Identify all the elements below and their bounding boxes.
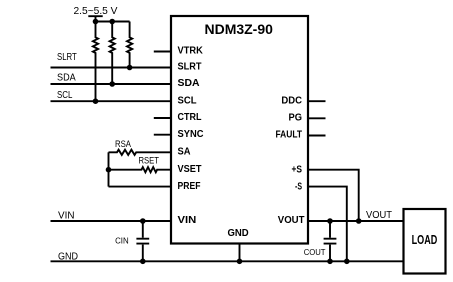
pin SDA — [178, 77, 200, 89]
svg-text:SDA: SDA — [178, 77, 200, 89]
resistor RSET — [109, 167, 172, 172]
node CIN/GND junction — [140, 259, 146, 265]
capacitor COUT — [324, 221, 337, 261]
wire PREF — [109, 186, 172, 188]
label net GND — [58, 250, 78, 262]
wire supply rail — [96, 21, 130, 23]
resistor RSA — [109, 150, 172, 155]
node bus/VSET junction — [106, 167, 112, 173]
svg-text:VOUT: VOUT — [366, 209, 393, 221]
pin -S — [295, 181, 302, 193]
svg-text:SA: SA — [178, 146, 191, 158]
node -S/GND junction — [344, 259, 350, 265]
label RSA — [115, 139, 131, 149]
svg-text:+S: +S — [292, 164, 303, 176]
wire +S to VOUT — [308, 170, 359, 221]
pin VSET — [178, 163, 203, 175]
pin SLRT — [178, 61, 203, 73]
svg-text:RSA: RSA — [115, 139, 131, 149]
wire SYNC pin stub — [154, 134, 171, 136]
node VIN/CIN junction — [140, 218, 146, 224]
op IC U1 NDM3Z-90 — [171, 16, 308, 244]
svg-text:SCL: SCL — [57, 89, 73, 101]
svg-text:DDC: DDC — [281, 94, 302, 106]
pin GND — [228, 227, 250, 239]
capacitor CIN — [136, 221, 149, 261]
svg-text:GND: GND — [228, 227, 250, 239]
svg-text:SYNC: SYNC — [178, 128, 204, 140]
svg-text:VIN: VIN — [178, 214, 197, 226]
label LOAD — [412, 233, 438, 247]
label net VIN — [58, 209, 75, 221]
resistor pull-up R3 (to SLRT) — [127, 22, 132, 68]
node R2/SDA junction — [109, 81, 115, 87]
label net VOUT — [366, 209, 393, 221]
pin +S — [292, 164, 303, 176]
label net SLRT — [57, 51, 77, 63]
svg-text:CTRL: CTRL — [178, 111, 202, 123]
wire PG pin stub — [308, 117, 326, 119]
pin SYNC — [178, 128, 204, 140]
wire -S to GND — [308, 187, 347, 262]
svg-text:VOUT: VOUT — [278, 214, 305, 226]
label COUT — [304, 247, 326, 257]
node VOUT/COUT junction — [327, 218, 333, 224]
svg-text:2.5~5.5 V: 2.5~5.5 V — [74, 5, 118, 17]
svg-text:VSET: VSET — [178, 163, 203, 175]
supply terminal 2.5~5.5 V — [88, 16, 102, 21]
wire FAULT pin stub — [308, 135, 326, 137]
node supply/R1 junction — [93, 19, 99, 25]
wire SA/VSET/PREF common bus — [108, 152, 110, 186]
label 2.5~5.5 V — [74, 5, 118, 17]
pin PREF — [178, 180, 201, 192]
wire GND rail — [51, 260, 404, 262]
node IC-GND/rail junction — [237, 259, 243, 265]
label NDM3Z-90 — [205, 22, 274, 38]
wire VIN — [51, 220, 172, 222]
pin PG — [289, 112, 303, 124]
svg-text:PREF: PREF — [178, 180, 201, 192]
pin VIN — [178, 214, 197, 226]
pin DDC — [281, 94, 302, 106]
wire SLRT — [51, 67, 172, 69]
svg-text:PG: PG — [289, 112, 303, 124]
svg-text:SCL: SCL — [178, 94, 198, 106]
svg-text:FAULT: FAULT — [276, 129, 303, 141]
svg-text:SLRT: SLRT — [57, 51, 77, 63]
svg-text:CIN: CIN — [115, 236, 129, 246]
svg-text:LOAD: LOAD — [412, 233, 438, 247]
pin SA — [178, 146, 191, 158]
wire CTRL pin stub — [154, 117, 171, 119]
svg-text:VIN: VIN — [58, 209, 75, 221]
pin VTRK — [178, 45, 204, 57]
svg-text:SDA: SDA — [57, 72, 76, 84]
resistor pull-up R2 (to SDA) — [110, 22, 115, 85]
svg-text:NDM3Z-90: NDM3Z-90 — [205, 22, 274, 38]
node R1/SCL junction — [93, 98, 99, 104]
node COUT/GND junction — [327, 259, 333, 265]
wire VTRK pin stub — [154, 51, 171, 53]
svg-text:VTRK: VTRK — [178, 45, 204, 57]
wire SCL — [51, 100, 172, 102]
node supply/R2 junction — [109, 19, 115, 25]
node +S/VOUT junction — [356, 218, 362, 224]
pin SCL — [178, 94, 198, 106]
node R3/SLRT junction — [127, 65, 133, 71]
wire VOUT — [308, 220, 404, 222]
pin VOUT — [278, 214, 305, 226]
wire IC GND pin stub — [239, 244, 241, 262]
wire SDA — [51, 83, 172, 85]
label CIN — [115, 236, 129, 246]
svg-text:RSET: RSET — [139, 156, 160, 166]
block LOAD — [404, 209, 446, 274]
wire DDC pin stub — [308, 100, 326, 102]
svg-text:COUT: COUT — [304, 247, 326, 257]
pin CTRL — [178, 111, 202, 123]
pin FAULT — [276, 129, 303, 141]
label net SDA — [57, 72, 76, 84]
svg-text:SLRT: SLRT — [178, 61, 203, 73]
resistor pull-up R1 (to SCL) — [93, 22, 98, 102]
svg-text:-S: -S — [295, 181, 302, 193]
label net SCL — [57, 89, 73, 101]
label RSET — [139, 156, 160, 166]
